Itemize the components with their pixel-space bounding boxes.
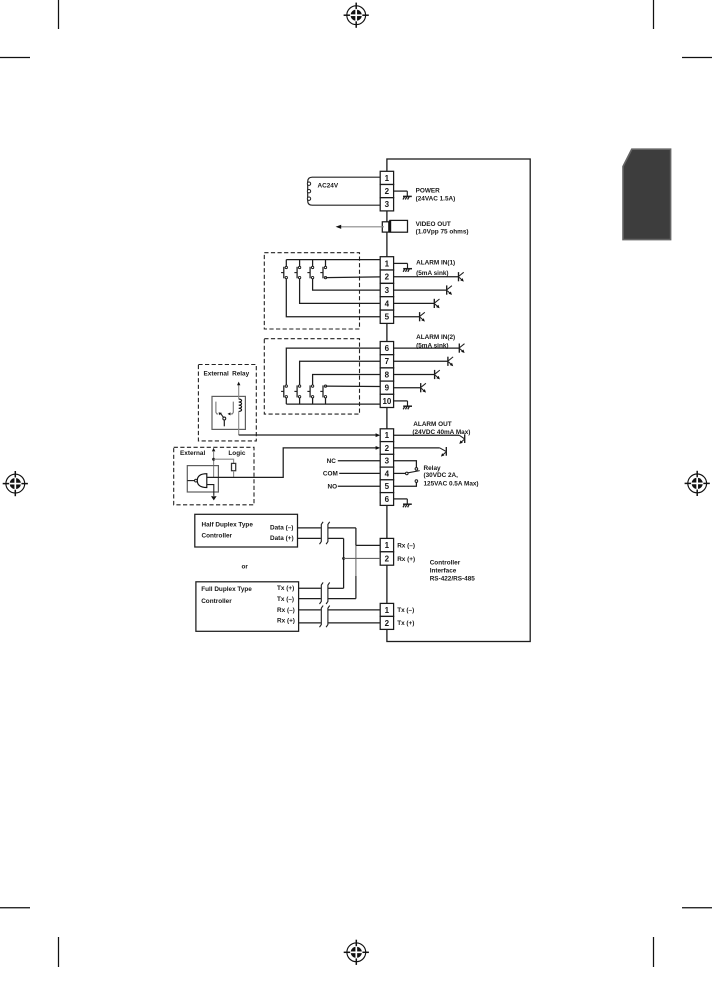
wire: Data(-) after break <box>328 527 356 529</box>
crop mark bottom-left horizontal <box>0 907 30 909</box>
svg-text:Rx (–): Rx (–) <box>277 607 295 614</box>
relay COM contact and lever <box>394 471 420 475</box>
svg-text:2: 2 <box>385 444 390 453</box>
registration mark top center <box>344 3 369 28</box>
half duplex controller box <box>195 514 298 547</box>
svg-text:125VAC 0.5A Max): 125VAC 0.5A Max) <box>424 480 479 487</box>
resistor R1 (logic) <box>232 463 236 470</box>
BNC video out connector <box>382 220 407 232</box>
alarm out terminal block (pins 1-6) <box>380 429 393 506</box>
wire: Tx(+) after break <box>328 587 343 589</box>
switch SW6 (alarm in 2) <box>294 385 300 398</box>
svg-text:9: 9 <box>385 384 390 393</box>
svg-text:Logic: Logic <box>228 450 245 457</box>
svg-text:4: 4 <box>385 469 390 478</box>
svg-text:3: 3 <box>385 200 390 209</box>
switch SW3 (alarm in 1) <box>307 266 313 278</box>
svg-text:COM: COM <box>323 471 338 478</box>
svg-text:Relay: Relay <box>424 465 441 472</box>
NAND gate U1 <box>187 474 207 488</box>
label External Relay <box>204 370 250 377</box>
sensor arrow (alarm in 1, pin5) <box>420 312 425 322</box>
wire: alarm in(1) pin1 to ground <box>394 262 408 264</box>
svg-text:1: 1 <box>385 259 390 268</box>
camera unit box (main outline) <box>387 159 530 642</box>
svg-text:NC: NC <box>327 458 337 465</box>
svg-text:ALARM OUT: ALARM OUT <box>413 421 451 428</box>
svg-text:POWER: POWER <box>416 188 441 195</box>
signal ground (logic) <box>211 496 217 500</box>
svg-text:6: 6 <box>385 495 390 504</box>
crop mark top-right horizontal <box>682 57 712 59</box>
svg-text:(30VDC 2A,: (30VDC 2A, <box>424 472 459 479</box>
wire: gate input stub to ground <box>207 485 214 496</box>
svg-text:VIDEO OUT: VIDEO OUT <box>416 221 451 228</box>
svg-text:NO: NO <box>328 483 338 490</box>
crop mark bottom-left vertical <box>58 937 60 967</box>
wire: external relay to alarm out pin1 <box>239 434 377 436</box>
wire: alarm out pin2 to output symbol <box>394 447 440 449</box>
alarm in(2) terminal block (pins 6-10) <box>380 342 393 408</box>
switch SW4 (alarm in 1) <box>320 266 326 278</box>
wire: SW4 bottom to pin2 <box>326 276 381 279</box>
switch SW8 (alarm in 2) <box>320 385 326 398</box>
wire: SW1 top to bus <box>285 260 287 267</box>
wire: SW3 bottom to pin3 <box>313 279 381 290</box>
label Tx(-) Tx(+) <box>397 607 414 627</box>
wire: alarm in(1) pin5 to sensor <box>394 316 420 318</box>
svg-text:Tx (+): Tx (+) <box>277 585 294 592</box>
alarm in(1) terminal block (pins 1-5) <box>380 257 393 324</box>
svg-text:3: 3 <box>385 286 390 295</box>
svg-text:Tx (+): Tx (+) <box>397 620 414 627</box>
svg-text:4: 4 <box>385 299 390 308</box>
cable break (data pair) <box>320 522 330 544</box>
crop mark top-right vertical <box>653 0 655 29</box>
cable break (rx pair) <box>320 606 330 628</box>
svg-text:1: 1 <box>385 606 390 615</box>
svg-text:ALARM IN(2): ALARM IN(2) <box>416 334 455 341</box>
sensor arrow (alarm in 1, pin4) <box>434 299 439 309</box>
wire: alarm out pin6 to ground <box>394 498 408 500</box>
svg-text:Data (–): Data (–) <box>270 524 293 531</box>
wire: alarm in(2) pin9 to sensor <box>394 387 421 389</box>
svg-text:External: External <box>204 370 229 377</box>
arrow to power source (logic) <box>212 448 215 452</box>
relay NC contact <box>394 461 418 471</box>
sensor arrow (alarm in 2, pin6) <box>459 344 464 354</box>
svg-text:8: 8 <box>385 370 390 379</box>
wire: SW2 bottom to pin4 <box>300 279 381 304</box>
svg-text:Controller: Controller <box>201 598 232 605</box>
alarm in(1) dashed box <box>264 253 359 329</box>
label Full Duplex Type <box>201 586 252 605</box>
wire: alarm in(2) pin6 to sensor <box>394 347 460 349</box>
external logic dashed box <box>174 447 254 505</box>
wire: alarm in(2) pin7 to sensor <box>394 360 448 362</box>
wire: SW3 top to bus <box>312 260 314 267</box>
registration mark right <box>685 471 710 496</box>
svg-text:10: 10 <box>382 397 391 406</box>
tx terminal block (pins 1-2) <box>380 603 393 629</box>
logic inner box <box>187 466 218 492</box>
svg-text:7: 7 <box>385 357 390 366</box>
wire: SW6 bottom to bus <box>299 398 301 404</box>
junction node (logic) <box>212 458 215 461</box>
svg-text:Rx (+): Rx (+) <box>277 618 295 625</box>
sensor arrow (alarm in 2, pin9) <box>421 383 426 393</box>
wire: power pin2 to ground <box>394 190 408 192</box>
switch SW2 (alarm in 1) <box>294 266 300 278</box>
wire: resistor to output line <box>233 471 235 478</box>
registration mark bottom center <box>344 940 369 965</box>
label Relay ratings <box>424 465 479 487</box>
svg-text:1: 1 <box>385 174 390 183</box>
label ALARM OUT <box>412 421 470 436</box>
rx terminal block (pins 1-2) <box>380 538 393 565</box>
wire: junction to resistor <box>214 459 234 463</box>
svg-text:(1.0Vpp 75 ohms): (1.0Vpp 75 ohms) <box>416 229 469 236</box>
svg-text:5: 5 <box>385 313 390 322</box>
wire: SW2 top to bus <box>299 260 301 267</box>
wire: Data(+) from half duplex box <box>298 537 321 539</box>
switch SW7 (alarm in 2) <box>307 385 313 398</box>
sensor arrow (alarm in 1, pin3) <box>447 285 452 295</box>
wire: NC to pin3 <box>338 460 380 462</box>
wire: Rx(+) to Tx pin2 <box>328 622 380 624</box>
wire: alarm in(2) pin8 to sensor <box>394 374 435 376</box>
svg-text:1: 1 <box>385 541 390 550</box>
relay changeover contact (right throw) <box>228 402 234 416</box>
wire: Tx(+) from full duplex box <box>299 587 321 589</box>
AC24V plug P1 <box>307 177 380 205</box>
wire: logic pull-up vertical <box>213 451 215 477</box>
sensor arrow (alarm in 2, pin8) <box>435 370 440 380</box>
sensor arrow (alarm in 1, pin2) <box>459 272 464 282</box>
arrowhead into pin1 <box>376 433 381 437</box>
svg-text:6: 6 <box>385 344 390 353</box>
arrow to power source (external relay) <box>237 382 240 386</box>
wire: NO to pin5 <box>338 485 380 487</box>
svg-text:Full Duplex Type: Full Duplex Type <box>201 586 252 593</box>
label ALARM IN(1) <box>416 259 455 277</box>
svg-text:3: 3 <box>385 457 390 466</box>
label ALARM IN(2) <box>416 334 455 349</box>
svg-text:2: 2 <box>385 273 390 282</box>
crop mark bottom-right vertical <box>653 937 655 967</box>
relay pole pivot and lever <box>221 414 226 427</box>
crop mark top-left horizontal <box>0 57 30 59</box>
cable break (tx pair) <box>320 582 330 604</box>
wire: Data(-) from half duplex box <box>298 527 321 529</box>
labels Tx/Rx (full duplex) <box>277 585 295 625</box>
external relay inner box <box>212 396 245 429</box>
wire: Data(+) after break <box>328 537 343 539</box>
wire: SW4 top to bus <box>325 260 327 267</box>
svg-text:Half Duplex Type: Half Duplex Type <box>202 522 254 529</box>
svg-text:1: 1 <box>385 431 390 440</box>
crop mark top-left vertical <box>58 0 60 29</box>
power terminal block (pins 1-3) <box>380 171 393 211</box>
svg-text:RS-422/RS-485: RS-422/RS-485 <box>430 576 476 583</box>
svg-text:(5mA sink): (5mA sink) <box>416 270 448 277</box>
wire: to Rx pin1 <box>356 544 380 546</box>
svg-text:Relay: Relay <box>232 370 249 377</box>
wire: SW7 top to pin8 <box>313 375 381 385</box>
external relay dashed box <box>198 365 256 441</box>
svg-text:Tx (–): Tx (–) <box>277 596 294 603</box>
wire: to Rx pin2 <box>344 557 381 559</box>
sensor arrow (alarm in 2, pin7) <box>448 357 453 367</box>
wire: bus B vertical (Data-/Rx-/Tx-) <box>355 528 357 599</box>
wire: COM to pin4 <box>339 472 380 474</box>
registration mark left <box>3 471 28 496</box>
arrowhead into pin2 <box>376 446 381 450</box>
svg-text:Tx (–): Tx (–) <box>397 607 414 614</box>
svg-text:(24VAC 1.5A): (24VAC 1.5A) <box>416 195 456 202</box>
wire: SW7 bottom to bus <box>312 398 314 404</box>
chassis ground (alarm out) <box>403 499 412 507</box>
black index tab (page edge) <box>623 149 671 239</box>
crop mark bottom-right horizontal <box>682 907 712 909</box>
wire: Tx(-) from full duplex box <box>299 598 321 600</box>
svg-text:Rx (–): Rx (–) <box>397 542 415 549</box>
wire: logic output to alarm out pin2 <box>207 448 377 478</box>
wire: alarm in(2) pin10 to ground <box>394 400 408 402</box>
label VIDEO OUT <box>416 221 469 236</box>
chassis ground (power) <box>403 191 412 199</box>
wire: Rx(-) from full duplex box <box>299 609 321 611</box>
wire: relay coil lower lead <box>238 411 240 435</box>
svg-text:Controller: Controller <box>430 559 461 566</box>
alarm in(2) dashed box <box>264 339 359 414</box>
full duplex controller box <box>196 582 299 632</box>
svg-text:2: 2 <box>385 619 390 628</box>
svg-text:Controller: Controller <box>202 533 233 540</box>
label POWER <box>416 188 456 203</box>
chassis ground (alarm in 1) <box>403 263 412 271</box>
wire: SW6 top to pin7 <box>300 361 381 385</box>
wire: Tx(-) after break <box>328 598 356 600</box>
video out arrow <box>336 225 384 229</box>
alarm in(2) bottom bus wire to pin10 <box>286 403 380 405</box>
relay NO contact <box>394 480 418 486</box>
wire: SW5 top to pin6 <box>286 348 380 385</box>
wire: alarm in(1) pin4 to sensor <box>394 302 435 304</box>
svg-text:Interface: Interface <box>430 568 457 575</box>
svg-text:AC24V: AC24V <box>318 182 339 189</box>
wire: bus A vertical (Data+/Rx+/Tx+) <box>343 538 345 588</box>
switch SW1 (alarm in 1) <box>281 266 287 278</box>
svg-text:Data (+): Data (+) <box>270 535 294 542</box>
svg-text:or: or <box>242 563 249 570</box>
output arrow (alarm out pin2) <box>440 447 447 457</box>
label Half Duplex Type <box>202 522 254 540</box>
relay changeover contact (left throw) <box>216 402 222 416</box>
output arrow (alarm out pin1) <box>459 434 465 444</box>
svg-text:Rx (+): Rx (+) <box>397 556 415 563</box>
svg-text:External: External <box>180 450 205 457</box>
wire: alarm out pin1 to output symbol <box>394 434 460 436</box>
svg-text:ALARM IN(1): ALARM IN(1) <box>416 259 455 266</box>
wire: SW1 bottom to pin5 <box>286 279 380 317</box>
junction node (Rx+) <box>342 557 345 560</box>
wire: alarm in(1) pin2 to sensor <box>394 276 459 278</box>
wire: alarm in(1) pin3 to sensor <box>394 289 447 291</box>
alarm in(1) top bus wire to pin1 <box>286 259 380 261</box>
wire: Rx(+) from full duplex box <box>299 622 321 624</box>
switch SW5 (alarm in 2) <box>281 385 287 398</box>
svg-text:5: 5 <box>385 482 390 491</box>
relay coil <box>239 399 242 411</box>
wire: relay coil to power arrow <box>238 385 240 399</box>
label Rx(-) Rx(+) <box>397 542 415 563</box>
wire: SW5 bottom to bus <box>285 398 287 404</box>
wire: SW8 top to pin9 <box>326 385 381 387</box>
wire: SW8 bottom to bus <box>325 398 327 404</box>
svg-text:2: 2 <box>385 554 390 563</box>
svg-text:2: 2 <box>385 187 390 196</box>
label Controller Interface RS-422/RS-485 <box>430 559 476 582</box>
wire: Rx(-) to Tx pin1 <box>328 609 380 611</box>
chassis ground (alarm in 2) <box>403 401 412 409</box>
